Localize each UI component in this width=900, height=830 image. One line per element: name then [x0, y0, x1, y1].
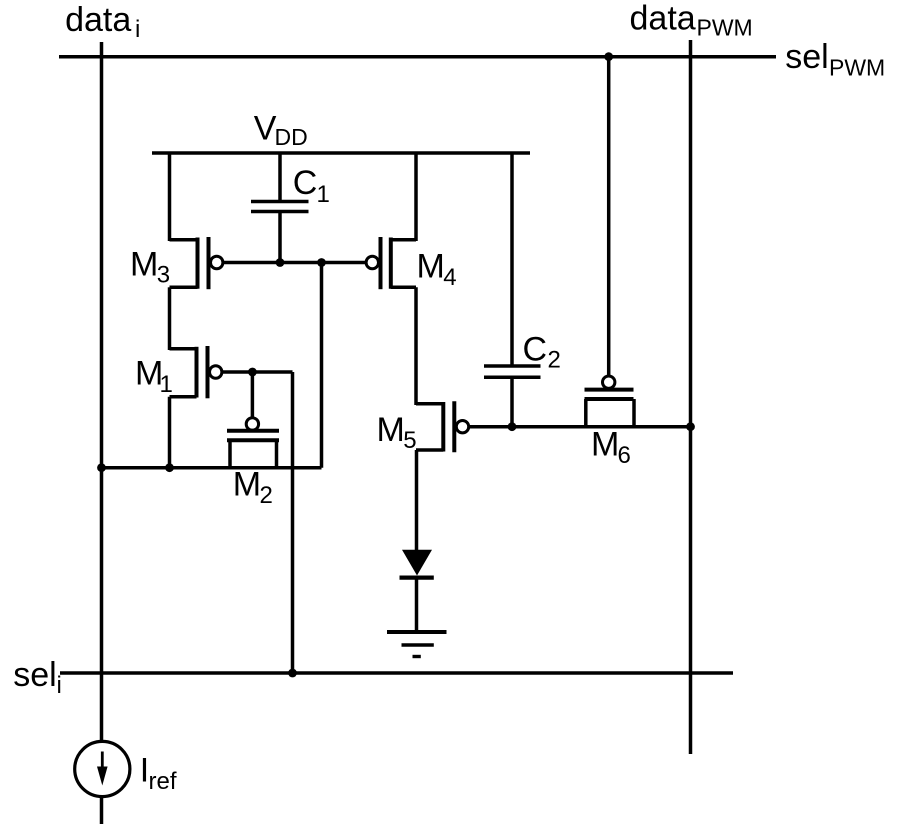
svg-text:4: 4	[443, 264, 456, 291]
transistor M6	[585, 376, 635, 427]
svg-text:M: M	[377, 411, 405, 449]
transistor M3	[170, 237, 223, 289]
svg-text:M: M	[233, 466, 261, 504]
svg-text:sel: sel	[785, 38, 828, 76]
wire gate node down to source node	[320, 263, 324, 468]
junction dot sel_PWM / M6 gate	[604, 52, 613, 61]
transistor M5	[416, 401, 469, 452]
svg-text:1: 1	[317, 181, 330, 208]
current source Iref	[75, 741, 130, 796]
svg-text:2: 2	[548, 347, 561, 374]
diode D1	[400, 550, 434, 631]
junction dot gate bus / node wire	[317, 258, 326, 267]
junction dot M6 drain / data_PWM	[686, 422, 695, 431]
wire VDD rail	[152, 151, 530, 155]
capacitor C1	[251, 202, 309, 263]
svg-text:i: i	[135, 16, 140, 43]
wire sel_PWM horizontal bus	[59, 55, 776, 59]
junction dot node / data_i	[97, 463, 106, 472]
junction dot C1 / gate bus	[276, 258, 285, 267]
svg-text:3: 3	[157, 262, 170, 289]
wire data_i vertical bus	[100, 42, 104, 742]
svg-text:M: M	[417, 248, 445, 286]
svg-text:sel: sel	[13, 656, 56, 694]
wire VDD to M3 source	[168, 153, 172, 241]
wire M1 gate to M2 gate and right	[222, 370, 293, 374]
wire VDD to C2	[510, 153, 514, 365]
svg-text:6: 6	[618, 442, 631, 469]
wire sel_PWM to M6 gate	[607, 57, 611, 377]
svg-text:data: data	[630, 0, 696, 37]
wire data_PWM vertical bus	[689, 40, 693, 754]
wire M1 gate down to M2 gate circle	[251, 372, 255, 418]
svg-text:5: 5	[403, 427, 416, 454]
svg-text:data: data	[65, 1, 131, 39]
svg-text:1: 1	[160, 371, 173, 398]
svg-text:M: M	[591, 426, 619, 464]
svg-text:V: V	[254, 110, 277, 148]
wire VDD to M4 source	[414, 153, 418, 241]
transistor M4	[366, 237, 416, 289]
wire M3 drain to M1 source	[168, 287, 172, 350]
junction dot sel_i / gate wire	[288, 669, 297, 678]
junction dot node / M1 drain	[165, 463, 174, 472]
junction dot C2 / M5 gate wire	[508, 422, 517, 431]
wire gate bus M3-M4	[223, 261, 367, 265]
svg-text:i: i	[57, 672, 62, 699]
svg-text:ref: ref	[149, 768, 177, 795]
svg-text:C: C	[523, 330, 548, 368]
wire M5 drain to diode	[415, 450, 419, 551]
capacitor C2	[484, 366, 541, 427]
wire sel_i horizontal bus	[60, 671, 733, 675]
svg-text:M: M	[130, 245, 158, 283]
transistor M1	[170, 346, 222, 398]
wire M1 drain to node	[168, 397, 172, 468]
wire gate node down to sel_i	[291, 372, 295, 673]
wire node data_i to M2	[102, 466, 322, 470]
wire M4 drain to M5 source	[414, 287, 418, 405]
svg-text:C: C	[293, 164, 318, 202]
svg-text:PWM: PWM	[697, 15, 753, 41]
svg-text:2: 2	[260, 482, 273, 509]
transistor M2	[227, 418, 279, 468]
wire M5 gate to data_PWM	[469, 425, 691, 429]
svg-text:PWM: PWM	[829, 54, 885, 80]
junction dot M1 gate / M2 gate	[248, 368, 257, 377]
svg-text:DD: DD	[275, 124, 308, 150]
ground	[387, 632, 447, 657]
wire data_i below current source	[100, 797, 104, 825]
wire VDD to C1	[278, 153, 282, 201]
